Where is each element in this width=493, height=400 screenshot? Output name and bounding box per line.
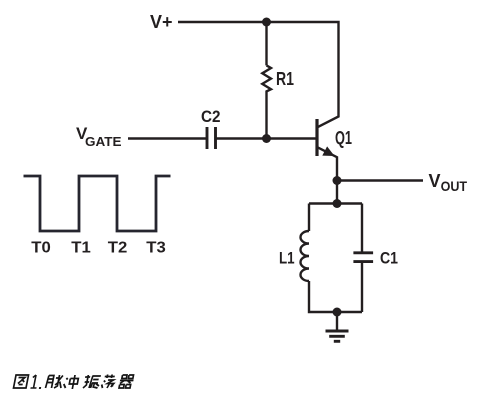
svg-text:T1: T1 xyxy=(71,240,91,257)
svg-text:C2: C2 xyxy=(201,107,221,126)
svg-text:V: V xyxy=(429,171,441,191)
svg-text:R1: R1 xyxy=(276,69,294,89)
svg-text:T3: T3 xyxy=(146,240,166,257)
svg-text:V+: V+ xyxy=(150,12,173,32)
svg-text:T2: T2 xyxy=(108,240,128,257)
svg-text:Q1: Q1 xyxy=(335,128,352,148)
svg-text:GATE: GATE xyxy=(85,135,122,149)
svg-text:C1: C1 xyxy=(380,249,398,268)
svg-text:L1: L1 xyxy=(279,249,295,268)
svg-text:T0: T0 xyxy=(31,240,51,257)
svg-text:OUT: OUT xyxy=(441,179,468,194)
